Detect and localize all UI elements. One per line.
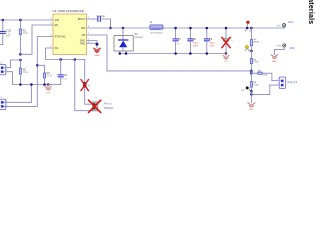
capacitor C8 bbox=[188, 28, 199, 54]
node diode leg 2 bbox=[125, 52, 128, 55]
node J2 gnd tap bbox=[30, 83, 33, 86]
svg-text:6.3V: 6.3V bbox=[210, 45, 215, 47]
capacitor C3 bbox=[58, 60, 68, 85]
svg-text:56.2k: 56.2k bbox=[47, 76, 53, 78]
svg-text:C3: C3 bbox=[64, 74, 68, 77]
wire U1 GND pin bbox=[87, 41, 98, 48]
node diode leg 1 bbox=[119, 52, 122, 55]
svg-text:VIN: VIN bbox=[55, 19, 59, 22]
resistor R3 bbox=[43, 72, 53, 85]
node C3 tap bbox=[59, 58, 62, 61]
node J3 return junction bbox=[250, 93, 253, 96]
resistor R6 bbox=[251, 71, 277, 81]
svg-text:GND: GND bbox=[95, 55, 100, 57]
node SW at diode bbox=[122, 27, 125, 30]
node R2 bottom on ground bus bbox=[19, 83, 22, 86]
node mid divider junction bbox=[250, 50, 253, 53]
connector J2 bbox=[0, 97, 8, 109]
pin numbers U1 left bbox=[50, 18, 52, 48]
svg-text:Vout: Vout bbox=[288, 20, 294, 24]
capacitor C1 bbox=[0, 20, 12, 45]
node C7 top bbox=[174, 27, 177, 30]
svg-text:PWRGD: PWRGD bbox=[104, 107, 114, 110]
test point TP1 bbox=[277, 24, 286, 28]
node RT junction bbox=[36, 64, 39, 67]
DNP cross over J4 bbox=[89, 100, 101, 112]
node C10 top bbox=[225, 27, 228, 30]
svg-text:2.2u: 2.2u bbox=[6, 33, 11, 35]
node boot-SW junction bbox=[109, 27, 112, 30]
wire yellow probe stem bbox=[247, 48, 251, 51]
svg-text:100u: 100u bbox=[228, 40, 233, 42]
op-amp U1 regulator body bbox=[53, 9, 87, 55]
node divider tap junction bbox=[250, 27, 253, 30]
svg-text:GND: GND bbox=[249, 109, 254, 111]
node probe junction bbox=[246, 27, 249, 30]
svg-text:56.2k: 56.2k bbox=[23, 72, 29, 74]
svg-text:PAD: PAD bbox=[80, 42, 85, 45]
svg-text:C8: C8 bbox=[193, 38, 197, 41]
svg-text:0.01u: 0.01u bbox=[62, 79, 68, 81]
wire probe stem bbox=[246, 24, 248, 28]
wire EN to IC bbox=[20, 25, 53, 54]
svg-text:6.3V: 6.3V bbox=[193, 45, 198, 47]
svg-text:402k: 402k bbox=[23, 33, 29, 35]
svg-text:R3: R3 bbox=[47, 72, 51, 75]
diode D1 bbox=[114, 28, 144, 54]
wire J1 pin1 to EN node bbox=[4, 60, 20, 68]
wire output ground bus bbox=[120, 53, 226, 55]
test point TP2 bbox=[241, 86, 252, 92]
connector J1 bbox=[0, 63, 8, 75]
svg-text:C4 0.1u: C4 0.1u bbox=[97, 15, 106, 18]
node C7 bottom bbox=[174, 52, 177, 55]
node C9 bottom bbox=[206, 52, 209, 55]
inductor L1 bbox=[150, 25, 163, 30]
svg-text:Open 3.3: Open 3.3 bbox=[287, 81, 298, 84]
node R3 bottom on ground bus bbox=[43, 83, 46, 86]
svg-text:90.9k: 90.9k bbox=[254, 41, 260, 43]
node VIN junction at R1 bbox=[19, 19, 22, 22]
svg-text:RT/SYNC: RT/SYNC bbox=[55, 36, 66, 39]
node C9 top bbox=[206, 27, 209, 30]
wire pullup branch lower bbox=[75, 60, 93, 111]
ground symbol divider bottom bbox=[248, 103, 255, 107]
svg-text:GND: GND bbox=[289, 47, 295, 50]
svg-text:J4: J4 bbox=[95, 96, 98, 98]
node C8 top bbox=[189, 27, 192, 30]
svg-text:74437368068: 74437368068 bbox=[150, 32, 164, 34]
svg-text:TP1: TP1 bbox=[277, 25, 282, 27]
wire boot cap to SW rail bbox=[101, 19, 111, 28]
wire J2 pin1 to ground bus bbox=[4, 85, 31, 103]
svg-text:EN: EN bbox=[55, 24, 59, 27]
svg-text:L1: L1 bbox=[150, 21, 153, 24]
node VIN junction at C1 bbox=[2, 19, 5, 22]
wire FB node link bbox=[250, 71, 252, 73]
ground symbol left bus bbox=[45, 85, 52, 91]
svg-text:R2: R2 bbox=[23, 68, 27, 71]
svg-text:C9: C9 bbox=[209, 38, 213, 41]
connector J4 (DNP, crossed) bbox=[92, 96, 98, 111]
connector J3 bbox=[277, 77, 298, 88]
wire divider bottom bbox=[250, 91, 252, 102]
node FB junction upper bbox=[250, 70, 253, 73]
svg-text:BOOT: BOOT bbox=[78, 18, 86, 21]
ground symbol at TP4 bbox=[271, 55, 277, 59]
test point TP4 GND bbox=[274, 44, 286, 55]
ground symbol output bus bbox=[223, 54, 229, 60]
svg-text:SW: SW bbox=[81, 27, 86, 30]
svg-text:TP2: TP2 bbox=[241, 90, 246, 92]
node C10 bottom bbox=[225, 52, 228, 55]
node EN junction bbox=[19, 53, 22, 56]
wire BOOT pin bbox=[87, 18, 98, 20]
wire FB pin bbox=[87, 35, 252, 71]
resistor R1 bbox=[19, 20, 28, 54]
node C8 bottom bbox=[189, 52, 192, 55]
svg-text:FB: FB bbox=[82, 34, 86, 37]
node ground tap on bus bbox=[47, 83, 50, 86]
wire J1 pin2 to ground bus bbox=[4, 72, 61, 85]
svg-text:TP4: TP4 bbox=[277, 45, 282, 47]
node GND-PAD junction bbox=[96, 43, 99, 46]
node J1 tap junction bbox=[19, 59, 22, 62]
svg-text:GND: GND bbox=[224, 61, 229, 63]
svg-text:R9: R9 bbox=[88, 86, 92, 88]
capacitor C10 (DNP, crossed) bbox=[224, 28, 234, 54]
capacitor C7 bbox=[173, 28, 182, 54]
DNP cross over C10 bbox=[222, 37, 230, 47]
svg-text:71.5k: 71.5k bbox=[253, 85, 259, 87]
wire SW rail bbox=[87, 27, 150, 29]
resistor R9 (DNP, crossed) bbox=[83, 82, 91, 87]
net tick mark at Vout tap bbox=[245, 30, 251, 51]
resistor R4 bbox=[250, 28, 259, 51]
node FB junction lower bbox=[250, 72, 253, 75]
svg-text:71.5k: 71.5k bbox=[253, 62, 259, 64]
svg-text:23.7k: 23.7k bbox=[262, 75, 268, 77]
svg-text:GND: GND bbox=[46, 92, 51, 94]
wire J2 pin2 to RT/SYNC bbox=[4, 37, 53, 107]
ground symbol at U1 bbox=[94, 48, 100, 52]
svg-text:50V: 50V bbox=[6, 36, 11, 38]
pin numbers U1 right bbox=[88, 17, 90, 43]
resistor R2 bbox=[19, 60, 29, 85]
node pullup branch tap bbox=[74, 58, 77, 61]
DNP cross over R9 bbox=[81, 80, 88, 91]
svg-text:C7: C7 bbox=[178, 38, 182, 41]
wire small DNP component branch bbox=[85, 60, 93, 105]
svg-text:C1/2: C1/2 bbox=[6, 30, 12, 33]
wire VIN top rail bbox=[0, 19, 53, 21]
wire J3 pin2 return bbox=[251, 85, 277, 94]
capacitor C4 boot bbox=[97, 15, 106, 21]
svg-text:aterials: aterials bbox=[307, 0, 314, 24]
svg-text:GND: GND bbox=[272, 61, 277, 63]
resistor R8 bbox=[250, 73, 259, 91]
resistor R5 bbox=[250, 51, 259, 71]
svg-text:Pull up: Pull up bbox=[104, 102, 112, 105]
wire U1 PAD pin bbox=[87, 42, 98, 44]
node yellow probe marker bbox=[245, 45, 248, 48]
svg-text:PDS760: PDS760 bbox=[135, 37, 144, 39]
wire SS pin to sub-rail bbox=[46, 48, 85, 60]
wire RT to R3 bbox=[37, 65, 44, 73]
svg-text:U1 LMR14030SDDAR: U1 LMR14030SDDAR bbox=[53, 9, 85, 13]
svg-text:D1: D1 bbox=[135, 33, 139, 36]
svg-text:47u: 47u bbox=[176, 43, 180, 45]
svg-text:SS: SS bbox=[55, 47, 59, 50]
node Vout red probe marker bbox=[246, 21, 249, 24]
svg-text:R1: R1 bbox=[23, 30, 27, 33]
capacitor C9 bbox=[204, 28, 215, 54]
node TP2 junction bbox=[250, 90, 253, 93]
